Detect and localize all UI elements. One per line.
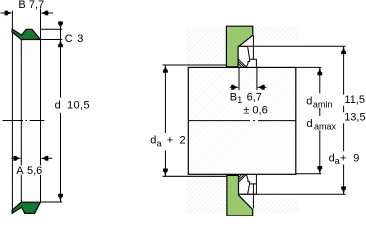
housing block lower right (hatched) [255, 199, 299, 214]
svg-text:amax: amax [314, 122, 337, 132]
svg-text:a: a [157, 139, 162, 149]
housing bore line top (da+2 extension) [163, 64, 228, 66]
counterface wall bottom (light green) [227, 175, 253, 216]
long extension line top y=46.3 [238, 45, 346, 47]
housing block upper right (hatched) [255, 27, 299, 42]
svg-text:d: d [306, 95, 312, 107]
svg-text:3: 3 [77, 33, 83, 45]
housing bore line bottom (da+2 extension) [163, 175, 228, 177]
d bottom extension line [41, 201, 63, 203]
C arrows (outside) [60, 21, 62, 44]
svg-text:+: + [167, 135, 173, 147]
svg-text:± 0,6: ± 0,6 [243, 105, 267, 117]
V-ring mounted top: outline [238, 36, 256, 68]
svg-text:6,7: 6,7 [247, 92, 262, 104]
staircase under body [246, 59, 249, 67]
svg-text:C: C [65, 33, 73, 45]
dimension A 5,6 [11, 157, 52, 159]
svg-text:A: A [16, 165, 24, 177]
body right silhouette line / B extension [40, 9, 42, 203]
svg-text:2: 2 [180, 135, 186, 147]
center line right figure [189, 120, 296, 122]
svg-text:10,5: 10,5 [67, 99, 90, 111]
seal section bottom (green, mirrored) [12, 202, 40, 213]
seal silhouette hatch area [13, 28, 41, 213]
body left silhouette line [20, 40, 22, 203]
svg-text:11,5: 11,5 [344, 94, 365, 106]
seal section top (green) [12, 29, 40, 39]
svg-text:7,7: 7,7 [29, 0, 44, 11]
shaft body with hatch [188, 67, 295, 174]
dimension damin/damax (x=319) [319, 67, 321, 93]
dimension d 10,5 line [60, 44, 62, 98]
svg-text:d: d [55, 99, 61, 111]
lip band hatching [238, 59, 246, 67]
svg-text:13,5: 13,5 [344, 112, 365, 124]
dimension C 3 extension lines [41, 29, 63, 39]
svg-text:d: d [150, 135, 156, 147]
dimension da + 2 (left) [164, 65, 166, 133]
svg-text:B: B [230, 92, 237, 104]
svg-text:a: a [335, 156, 340, 166]
dimension da+9 (x=343.5) [343, 46, 345, 94]
counterface wall top (light green) [226, 26, 252, 67]
extension from wall edge to body [252, 36, 254, 60]
svg-text:1: 1 [237, 95, 242, 105]
svg-text:+: + [340, 152, 346, 164]
svg-text:d: d [307, 118, 313, 130]
housing block lower left (hatched) [186, 176, 227, 213]
dimension B1 6,7 [238, 68, 240, 90]
dimension B 7,7 [1, 12, 54, 14]
svg-text:amin: amin [313, 100, 333, 110]
center line left figure [3, 120, 45, 122]
long extension line bottom y=193.4 [239, 193, 346, 195]
V-ring mounted bottom: outline (mirror) [238, 174, 256, 208]
shaft top edge right extension [296, 66, 321, 68]
shaft bottom edge right extension [296, 173, 321, 175]
svg-text:5,6: 5,6 [27, 165, 42, 177]
svg-text:B: B [18, 0, 25, 11]
svg-text:9: 9 [353, 152, 359, 164]
housing block upper left (hatched) [186, 28, 227, 65]
silhouette line left (lip tip) / B extension [11, 11, 13, 214]
